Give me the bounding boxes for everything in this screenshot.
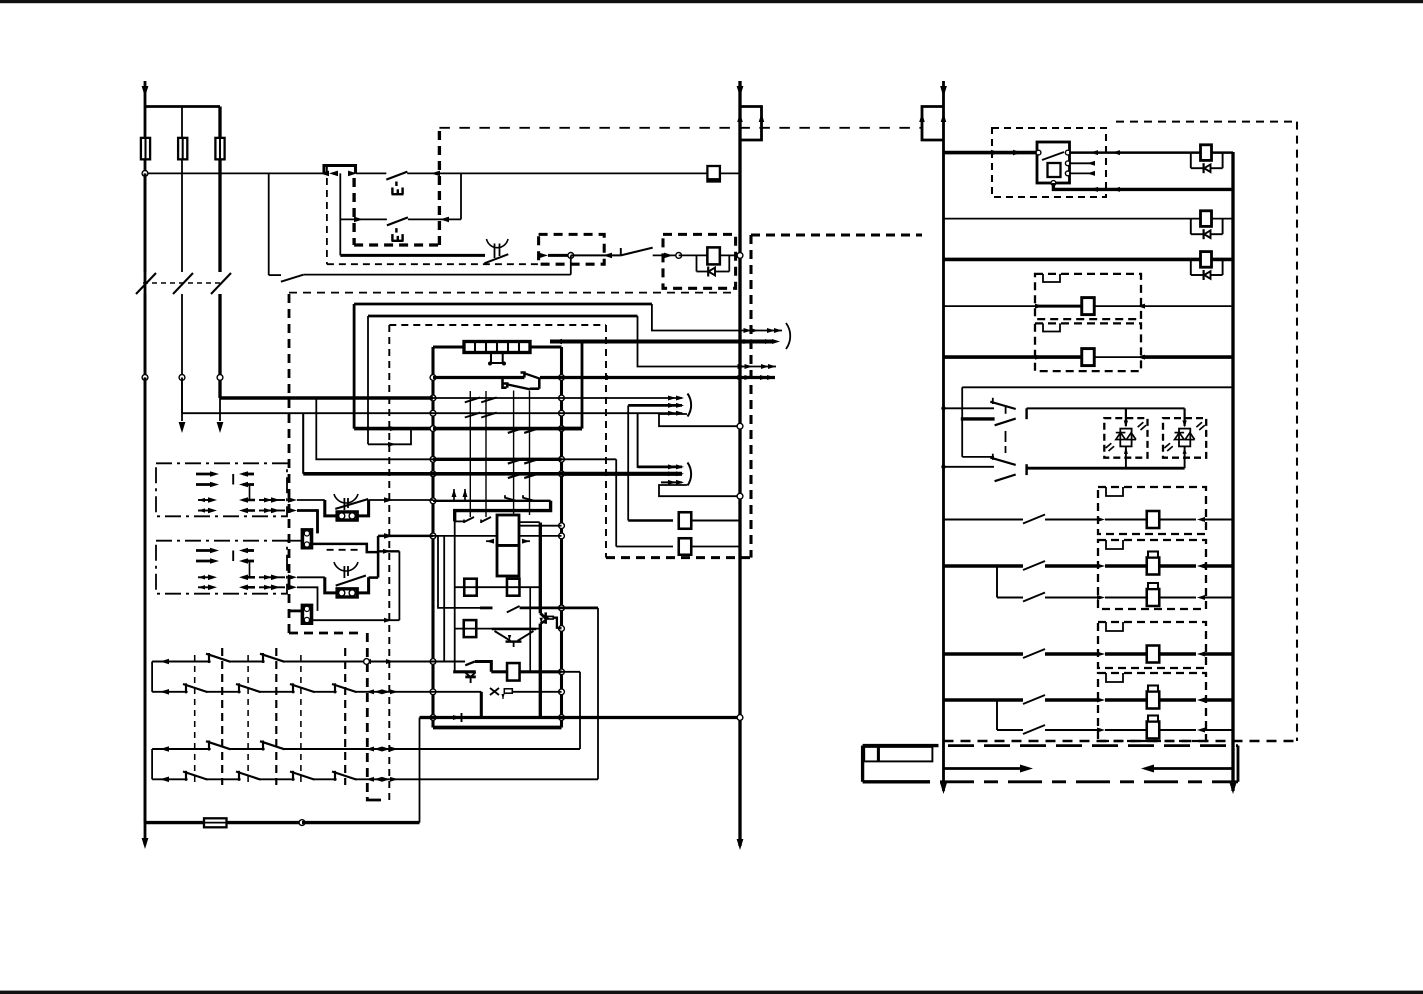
- breaker contact P1: [136, 273, 156, 294]
- center bus tap box: [740, 107, 762, 141]
- wire: LED frame top: [962, 386, 1233, 388]
- module (flasher unit): [497, 515, 519, 546]
- wire: E2 row: [340, 218, 387, 220]
- wire: row 500: [297, 499, 325, 501]
- row 398 wire: [433, 397, 562, 399]
- wire: retention loop: [570, 255, 572, 274]
- wire: RL1 out stubs: [1069, 162, 1094, 164]
- node: return: [299, 820, 305, 826]
- dashed box: output group 3: [1098, 622, 1206, 668]
- thermal element PB1: [337, 512, 357, 520]
- wire 717 to center bus: [562, 716, 741, 719]
- wire: S2 to node2: [653, 254, 679, 256]
- label E2: [392, 240, 404, 242]
- fuse F4: [204, 818, 227, 827]
- row 717 wire: [420, 716, 434, 719]
- switch linkage: [1005, 431, 1007, 442]
- bracket: outputs right: [786, 323, 790, 349]
- wire: riser x399: [398, 551, 400, 620]
- row 692 wire: [433, 691, 481, 693]
- v481: [480, 692, 483, 718]
- contacts row 413: [465, 413, 481, 418]
- wire: b2 in1: [638, 413, 682, 467]
- dashed wire: control boundary y=127.8: [439, 127, 922, 129]
- breaker linkage: [143, 282, 224, 284]
- wire: PB0 to node: [539, 253, 548, 259]
- module outputs: [519, 521, 540, 523]
- ladder linkage dashed lines: [194, 655, 196, 785]
- internal vertical v455: [454, 521, 456, 672]
- R branch 2: [996, 700, 998, 730]
- connector comb: [464, 342, 530, 353]
- coil R5: [1082, 349, 1095, 366]
- wire: PB1 to unit: [369, 499, 433, 501]
- coil E2: [679, 538, 692, 555]
- wire: column 1 lower: [144, 173, 147, 272]
- wire: v582: [581, 342, 584, 429]
- breaker contact P3: [211, 273, 231, 294]
- wire: w2 entry to row 428: [368, 429, 433, 445]
- switch S2: [620, 248, 622, 255]
- arrow: flow left: [1146, 767, 1233, 770]
- coil R1 with diode: [1191, 151, 1233, 154]
- wire: E-branch vertical: [339, 173, 341, 255]
- bottom border bar: [0, 991, 1423, 994]
- fuse F1: [141, 138, 150, 160]
- internal vertical v444: [443, 536, 445, 662]
- switch E1 contact: [386, 172, 407, 180]
- node: column2 y377: [179, 375, 185, 381]
- wire: K2 to bus: [720, 254, 740, 256]
- contacts row 459: [508, 459, 524, 464]
- switch PB0 contact: [484, 254, 508, 263]
- wire: b1 in1: [562, 397, 683, 399]
- fuse F3: [215, 138, 224, 160]
- wire: row 587 to XB2: [297, 587, 318, 611]
- wire: RL1 main out: [1069, 151, 1191, 154]
- wire: row341 (power out): [550, 339, 774, 343]
- connector comb stem: [491, 353, 503, 364]
- transistor Q2 (power): [453, 670, 476, 673]
- dashed box: PB2 enclosure: [327, 549, 363, 551]
- R output row 2: [944, 564, 1024, 568]
- wire: LED top feed: [1027, 407, 1185, 409]
- row 671 wire: [491, 670, 507, 673]
- wire: b1 in2: [628, 404, 682, 407]
- contacts row 501: [505, 498, 517, 501]
- connector CN1 (dash-dot box): [156, 463, 287, 516]
- row 377 wire: [433, 376, 524, 379]
- switch S3 contact: [281, 275, 304, 282]
- wire: XB2 left: [289, 609, 302, 612]
- wire: fuse column 3: [218, 107, 221, 174]
- node rows: right edge: [559, 375, 565, 381]
- dashed box: R coil group B: [1035, 323, 1141, 371]
- row 428 wire: [433, 427, 582, 431]
- wire: column3 stub: [219, 398, 221, 421]
- internal vertical v438: [438, 536, 480, 608]
- dashed box: S2 enclosure: [539, 234, 605, 264]
- up arrows row 501: [453, 489, 455, 501]
- LED pair 1: [1104, 418, 1147, 458]
- coil RO3: [1147, 589, 1160, 606]
- step bracket: [455, 501, 551, 522]
- contacts row 474: [508, 473, 524, 478]
- bracket B1: [688, 394, 692, 417]
- wire: top bracket: [145, 105, 220, 108]
- contacts row 398: [465, 397, 481, 402]
- node rows: left edge: [430, 375, 436, 381]
- dashed box: outer switch assembly: [326, 166, 328, 264]
- wire: R row 357: [944, 355, 1082, 359]
- coil C: [464, 620, 477, 637]
- dashed box: K2 enclosure: [663, 234, 736, 288]
- row 536 wire: [433, 535, 497, 537]
- ladder bracket 2: [151, 749, 153, 779]
- pushbutton PB2: [334, 562, 358, 571]
- wire: column2 stub: [181, 377, 183, 421]
- wire: E2 to junction: [408, 218, 461, 220]
- wire: horizontal feed bus y=173: [145, 172, 323, 174]
- wire: LED bottom feed: [1027, 467, 1185, 470]
- node: column3 y377: [217, 375, 223, 381]
- contacts row 428: [508, 428, 524, 433]
- wire: main bus continues down: [144, 377, 147, 822]
- notch O4: [1106, 673, 1123, 682]
- coil RO1: [1147, 511, 1160, 528]
- wire: row 377 out: [562, 376, 776, 379]
- pushbutton PB0 head: [487, 239, 509, 248]
- breaker contact P2: [173, 273, 193, 294]
- dashed wire: bottom boundary: [944, 740, 1298, 743]
- bracket B2: [688, 463, 692, 486]
- CN1 exit arrows: [271, 497, 280, 503]
- R output row 1: [944, 519, 1024, 521]
- coil R4: [1082, 298, 1095, 315]
- dashed box: RL1 enclosure: [992, 128, 1106, 197]
- wire: R row 218: [944, 218, 1191, 220]
- coil row 587: [455, 586, 540, 588]
- row 459 wire: [433, 458, 562, 461]
- row 413 feed: [182, 412, 433, 414]
- wire: node to S2: [571, 254, 621, 256]
- zener + cap: [490, 688, 499, 695]
- relay RL1 box: [1037, 142, 1070, 183]
- wire: node2 to K2: [679, 254, 708, 256]
- arrow: flow right: [944, 767, 1027, 770]
- wire: w1 entry to row 428: [354, 427, 433, 431]
- ladder bracket 1: [151, 662, 153, 692]
- switch row 607: [480, 606, 493, 609]
- wire: CN2 row 550 internal: [287, 540, 302, 542]
- dashed box: output group 2: [1098, 540, 1206, 609]
- wire: b2 in2: [562, 472, 683, 476]
- ladder row 2 (y692): [152, 691, 360, 693]
- X-box XB2: [302, 605, 311, 623]
- wire: return riser: [419, 718, 421, 823]
- notch O2: [1106, 540, 1123, 549]
- diode D3: [453, 715, 461, 720]
- switch SB (hazard): [962, 456, 994, 458]
- wire: S3 feed: [268, 173, 270, 275]
- wire: b2 in3: [661, 481, 682, 483]
- coil E1: [679, 512, 692, 529]
- row 661 wire: [433, 661, 465, 663]
- wire: fuse column 2: [181, 107, 183, 174]
- wire: XB2 out: [312, 619, 400, 621]
- wire: E to relay K1: [461, 172, 707, 174]
- wire: ST pole2 stub: [961, 417, 995, 420]
- wire: E1 to junction: [407, 172, 461, 174]
- LED pair 2: [1163, 418, 1206, 458]
- connector CN2 (dash-dot box): [156, 541, 287, 594]
- node: column1 y377: [142, 375, 148, 381]
- center bus (node B): [738, 81, 741, 846]
- diode D-K2: [696, 255, 698, 271]
- wire: branch to start row: [340, 254, 485, 257]
- changeover switch on row 377: [521, 373, 525, 378]
- internal vertical v540 (power): [539, 523, 542, 614]
- main supply bus (left, node A): [144, 81, 147, 845]
- border crossing hop: [324, 166, 356, 174]
- coil RO5: [1147, 692, 1160, 709]
- control unit frame: [431, 347, 434, 728]
- transistor Q1: [540, 613, 545, 618]
- R output row 4: [944, 698, 1024, 702]
- thermal element PB2: [337, 589, 357, 597]
- R branch 1: [996, 566, 998, 598]
- switch E2 contact: [387, 217, 408, 225]
- notch O1: [1106, 487, 1123, 496]
- wire: b1 out: [659, 414, 740, 426]
- wire: b1 in3: [562, 412, 683, 414]
- wire: PB2 right link: [369, 576, 379, 579]
- wire: junction riser x378: [377, 536, 380, 578]
- wire: R row 306: [944, 305, 1037, 307]
- dashed box: main harness boundary: [288, 294, 291, 633]
- coil D2: [507, 663, 520, 681]
- coil R3 with diode: [1191, 258, 1233, 262]
- notch A: [1043, 274, 1060, 282]
- dashed box: R coil group A: [1035, 274, 1141, 319]
- wire: feed line to E1: [356, 172, 386, 174]
- pushbutton PB1: [334, 494, 358, 503]
- right bus tap box: [922, 107, 944, 141]
- right bus (node C): [942, 81, 945, 791]
- coil B: [507, 579, 520, 596]
- row 474 wire: [433, 472, 562, 476]
- row 459 feed: [316, 398, 433, 459]
- fuse F2: [178, 138, 187, 160]
- row 501 wire: [433, 500, 551, 502]
- wire: K1 to center bus: [720, 172, 740, 174]
- ladder row1 exit: [360, 661, 433, 663]
- coil A: [464, 579, 477, 596]
- top border bar: [0, 0, 1423, 3]
- ladder row 3 (y749): [152, 748, 360, 750]
- linkage verticals: [513, 391, 515, 516]
- wire: PB2 left: [297, 576, 325, 578]
- notch B: [1043, 323, 1060, 331]
- wire: ground return: [145, 821, 204, 824]
- wire: b2 out: [659, 485, 740, 496]
- CN2 exit arrows: [271, 575, 280, 581]
- ladder row 4 (y779): [152, 778, 360, 780]
- coil RO2: [1147, 558, 1160, 575]
- wire: coil E2 row: [562, 458, 617, 460]
- wire: row4 riser: [597, 608, 599, 779]
- coil R2 with diode: [1191, 218, 1233, 220]
- contacts under step: [464, 517, 474, 522]
- ladder row4 exit: [360, 778, 598, 780]
- X-box XB1: [302, 530, 311, 548]
- row 413 wire: [433, 412, 562, 414]
- switch ST (hazard): [944, 407, 995, 409]
- wire: R row 152: [944, 151, 1038, 155]
- dashed box: output group 1: [1098, 487, 1206, 534]
- chain line: rail bottom: [940, 780, 1238, 783]
- row 398 feed: [220, 396, 433, 400]
- wire: coil E1 row: [627, 405, 629, 520]
- wire: loop top w1: [354, 303, 652, 306]
- relay coil K2: [707, 247, 720, 264]
- dashed box: inner E-switch box: [352, 178, 355, 245]
- node: start row: [568, 253, 574, 259]
- row 474 feed: [302, 413, 304, 474]
- wire: XB1 out: [312, 544, 379, 552]
- ladder row2 exit: [360, 691, 433, 693]
- wire: R row 259: [944, 258, 1191, 262]
- notch O3: [1106, 622, 1123, 631]
- wire: row 510 to XB1: [297, 511, 318, 534]
- dashed box: output group 4: [1098, 673, 1206, 741]
- transistor Y1: [492, 628, 537, 631]
- wire: column 2 lower: [181, 173, 183, 272]
- dashed box: right outer: [1116, 121, 1293, 123]
- wire: row3 riser: [579, 672, 581, 749]
- dashed box: control unit inner boundary: [388, 325, 390, 800]
- wire: row 551: [378, 550, 399, 552]
- label E1: [392, 193, 404, 195]
- coil RO4: [1147, 646, 1160, 663]
- coil RO6: [1147, 722, 1160, 739]
- ladder row 1 (y661): [152, 661, 360, 663]
- wire: RL1 bottom row: [1053, 183, 1233, 189]
- wire: column 3 lower: [218, 173, 221, 272]
- right return bus (node D): [1231, 152, 1234, 791]
- wire: loop top w2: [368, 315, 638, 318]
- ground rail box: [861, 746, 864, 782]
- internal vertical v530: [529, 587, 531, 672]
- component K1 box: [707, 166, 720, 182]
- ladder row3 exit: [360, 748, 580, 750]
- ground rail inner box: [864, 747, 932, 762]
- node: relay K2 input: [676, 253, 682, 259]
- wire: junction vertical: [460, 173, 462, 219]
- coil C row: [455, 628, 541, 630]
- R output row 3: [944, 652, 1024, 656]
